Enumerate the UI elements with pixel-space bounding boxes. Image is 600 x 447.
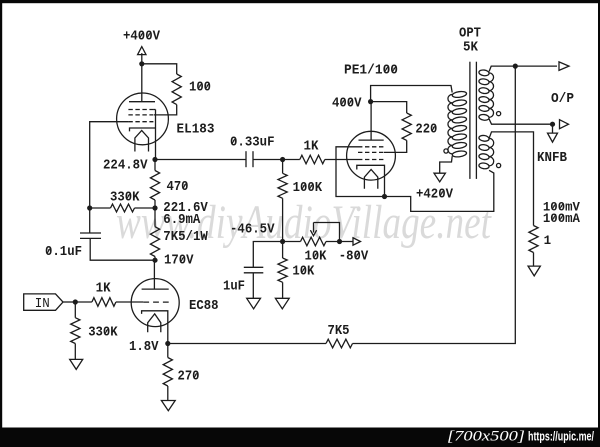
PE1 grid g2 bbox=[358, 151, 384, 153]
EL183 grid g1 bbox=[128, 121, 153, 123]
ground 10K bbox=[275, 298, 289, 309]
wire feedback right bbox=[353, 66, 516, 343]
EC88 cathode bbox=[142, 311, 168, 344]
svg-text:400V: 400V bbox=[332, 97, 362, 112]
label 100 bbox=[189, 81, 211, 96]
EL183 grid g2 (screen) bbox=[128, 114, 153, 116]
resistor 1K (PE1 grid stopper) bbox=[300, 155, 325, 164]
wire 100K to -46.5V node bbox=[282, 198, 284, 241]
wire R1 to ground bbox=[533, 253, 535, 267]
wire 220 to PE1 g2 bbox=[384, 140, 407, 152]
op EL183 envelope bbox=[117, 93, 169, 145]
label OPT bbox=[459, 27, 481, 42]
wire +400V to R 100 branch bbox=[142, 64, 177, 74]
wire node to 7K5/1W bbox=[154, 208, 156, 227]
label 1.8V bbox=[129, 340, 159, 355]
EC88 heater bbox=[148, 314, 161, 332]
svg-text:EC88: EC88 bbox=[189, 299, 219, 314]
label 10K pot bbox=[305, 250, 328, 265]
svg-text:220: 220 bbox=[415, 123, 437, 138]
svg-text:1: 1 bbox=[544, 233, 552, 248]
svg-text:1K: 1K bbox=[96, 282, 112, 297]
wire C 1uF to ground bbox=[252, 273, 254, 299]
label 400V bbox=[332, 97, 362, 112]
wire cathode to KNFB winding bbox=[385, 170, 494, 211]
label 330K upper bbox=[110, 191, 140, 206]
EL183 heater bbox=[135, 131, 149, 152]
wire pot to -80V bbox=[326, 241, 353, 243]
label 1 bbox=[544, 233, 552, 248]
svg-text:IN: IN bbox=[35, 297, 50, 312]
+400V label bbox=[123, 30, 161, 45]
label EC88 bbox=[189, 299, 219, 314]
svg-text:+400V: +400V bbox=[123, 30, 161, 45]
svg-text:-46.5V: -46.5V bbox=[230, 222, 275, 237]
wire plate to OPT primary bbox=[371, 86, 453, 102]
resistor 100 bbox=[172, 74, 181, 105]
svg-text:100K: 100K bbox=[293, 181, 323, 196]
node g1 bias junction bbox=[87, 205, 92, 210]
wire EL183 g1 left bbox=[90, 122, 129, 208]
PE1 g3 tie to cathode bbox=[336, 147, 385, 197]
arrow O/P bbox=[559, 62, 569, 71]
wire IN to node bbox=[63, 301, 75, 303]
wire 330K to ground bbox=[74, 344, 76, 360]
PE1 plate bbox=[359, 102, 384, 141]
svg-text:KNFB: KNFB bbox=[537, 151, 567, 166]
wire C 0.33uF to node bbox=[253, 159, 283, 161]
label -80V bbox=[339, 250, 369, 265]
wire KNFB ground lead bbox=[552, 124, 554, 133]
label 1uF bbox=[223, 280, 245, 295]
input flag IN bbox=[24, 294, 63, 310]
potentiometer 10K body bbox=[301, 237, 327, 246]
ground input 330K bbox=[70, 359, 83, 369]
EL183 grid g3 bbox=[128, 109, 155, 111]
OPT secondary OP winding bbox=[479, 69, 494, 120]
wire secondary top to O/P bbox=[489, 66, 557, 71]
wire node to C 1uF bbox=[253, 242, 282, 268]
svg-text:0.33uF: 0.33uF bbox=[230, 136, 275, 151]
OPT primary phase dot bbox=[444, 149, 448, 153]
EC88 grid bbox=[143, 301, 168, 303]
svg-text:PE1/100: PE1/100 bbox=[344, 64, 398, 79]
label PE1/100 bbox=[344, 64, 398, 79]
label 0.1uF bbox=[45, 245, 82, 260]
node O/P feedback tap bbox=[513, 64, 518, 69]
wire 10K to ground bbox=[282, 282, 284, 298]
wire plate branch to 220 bbox=[371, 102, 407, 113]
capacitor 1uF bbox=[244, 267, 263, 273]
watermark www.diyAudioVillage.net bbox=[116, 196, 492, 249]
label 0.33uF bbox=[230, 136, 275, 151]
wire cathode node down bbox=[154, 160, 156, 171]
pot wiper arrow bbox=[310, 223, 316, 236]
node input bbox=[73, 299, 78, 304]
svg-text:EL183: EL183 bbox=[177, 123, 215, 138]
EL183 cathode bbox=[130, 128, 156, 131]
node 224.8V bbox=[152, 157, 157, 162]
label KNFB bbox=[537, 151, 567, 166]
node 170V bbox=[152, 258, 157, 263]
wire feedback left bbox=[168, 343, 326, 345]
arrow KNFB bbox=[560, 120, 569, 129]
tube EC88 envelope bbox=[131, 279, 179, 327]
wire g1 node to C 0.1uF bbox=[89, 208, 91, 233]
label 6.9mA bbox=[163, 213, 201, 228]
node 221.6V bbox=[152, 205, 157, 210]
svg-text:100: 100 bbox=[189, 81, 211, 96]
capacitor 0.1uF bbox=[80, 233, 101, 238]
resistor 220 bbox=[402, 113, 411, 140]
node PE1 plate bbox=[368, 99, 373, 104]
svg-text:170V: 170V bbox=[164, 254, 194, 269]
wire node to 1K bbox=[75, 301, 92, 303]
arrow +420V bbox=[434, 173, 445, 182]
wire node to 1K bbox=[283, 159, 300, 161]
ground KNFB bbox=[548, 133, 558, 142]
label O/P bbox=[551, 92, 574, 107]
wire 470 to node bbox=[154, 200, 156, 208]
resistor 330K (EL183 grid) bbox=[111, 204, 135, 212]
PE1 cathode bbox=[357, 165, 385, 196]
+400V supply arrow bbox=[138, 47, 146, 64]
resistor 100K bbox=[278, 173, 287, 198]
label 220 bbox=[415, 123, 437, 138]
wire 270 to ground bbox=[167, 386, 169, 401]
label 270 bbox=[178, 370, 200, 385]
resistor 1 bbox=[529, 226, 538, 253]
label 7K5 bbox=[328, 324, 350, 339]
wire secondary bottom bbox=[489, 119, 552, 124]
svg-text:100mA: 100mA bbox=[543, 211, 580, 226]
svg-text:-80V: -80V bbox=[339, 250, 369, 265]
PE1 grid g1 bbox=[358, 159, 384, 161]
label 1K input bbox=[96, 282, 112, 297]
svg-text:+420V: +420V bbox=[416, 188, 454, 203]
label 330K input bbox=[88, 326, 118, 341]
svg-text:10K: 10K bbox=[305, 250, 328, 265]
OPT primary winding bbox=[448, 91, 467, 158]
ground 1uF bbox=[247, 298, 261, 309]
wire node to 100K bbox=[282, 160, 284, 174]
resistor 470 bbox=[150, 171, 159, 201]
wire primary bottom to +420V bbox=[440, 156, 453, 173]
svg-text:1K: 1K bbox=[304, 140, 320, 155]
label 10K lower bbox=[292, 265, 315, 280]
wire input node down bbox=[74, 302, 76, 318]
resistor 330K (input) bbox=[71, 318, 80, 344]
wire R100 to EL183 g2 bbox=[154, 105, 177, 115]
wire C 0.1uF to 170V node bbox=[90, 238, 155, 260]
svg-text:330K: 330K bbox=[110, 191, 140, 206]
bottom caption bar bbox=[0, 428, 600, 447]
svg-text:1.8V: 1.8V bbox=[129, 340, 159, 355]
svg-text:7K5: 7K5 bbox=[328, 324, 350, 339]
label 7K5/1W bbox=[163, 230, 208, 245]
node pot wiper junction bbox=[337, 239, 342, 244]
label 100mA bbox=[543, 211, 580, 226]
label 100K bbox=[293, 181, 323, 196]
arrow -80V bbox=[353, 238, 361, 246]
svg-text:0.1uF: 0.1uF bbox=[45, 245, 82, 260]
label IN bbox=[35, 297, 50, 312]
resistor 1K (EC88 grid) bbox=[92, 298, 116, 307]
svg-text:OPT: OPT bbox=[459, 27, 481, 42]
resistor 10K bbox=[278, 258, 287, 282]
svg-text:10K: 10K bbox=[292, 265, 315, 280]
svg-text:270: 270 bbox=[178, 370, 200, 385]
OPT cathode winding bbox=[479, 135, 494, 170]
label -46.5V bbox=[230, 222, 275, 237]
label 5K bbox=[463, 41, 479, 56]
OPT secondary OP phase dot bbox=[497, 112, 501, 116]
wire cathode to 270 bbox=[167, 344, 169, 358]
svg-text:224.8V: 224.8V bbox=[103, 159, 148, 174]
ground R1 bbox=[528, 266, 540, 276]
svg-text:O/P: O/P bbox=[551, 92, 574, 107]
EL183 plate bbox=[129, 64, 155, 102]
PE1 heater bbox=[364, 170, 377, 189]
OPT cathode winding phase dot bbox=[497, 163, 501, 167]
label EL183 bbox=[177, 123, 215, 138]
wire 1K to EC88 grid bbox=[116, 301, 143, 303]
label 224.8V bbox=[103, 159, 148, 174]
node -46.5V bbox=[280, 239, 285, 244]
svg-text:5K: 5K bbox=[463, 41, 479, 56]
wire 330K left lead bbox=[90, 207, 111, 209]
label 100mV bbox=[543, 200, 580, 215]
node cathode 1.8V bbox=[165, 341, 170, 346]
resistor 7K5/1W bbox=[150, 227, 159, 257]
wire 1K to PE1 g1 bbox=[325, 159, 358, 161]
svg-text:1uF: 1uF bbox=[223, 280, 245, 295]
wire cathode winding top to R1 bbox=[489, 132, 533, 226]
resistor 7K5 feedback bbox=[326, 339, 353, 348]
wire node to 10K bbox=[282, 242, 284, 259]
capacitor 0.33uF bbox=[246, 151, 253, 167]
wire 330K right lead bbox=[135, 207, 156, 209]
OPT core bbox=[470, 62, 477, 179]
svg-text:330K: 330K bbox=[88, 326, 118, 341]
label 221.6V bbox=[163, 201, 208, 216]
node +400V junction bbox=[139, 61, 144, 66]
svg-text:https://upic.me/: https://upic.me/ bbox=[528, 429, 594, 444]
svg-text:[700x500]: [700x500] bbox=[447, 429, 525, 445]
label 470 bbox=[167, 180, 189, 195]
wire 7K5/1W to 170V node bbox=[154, 257, 156, 261]
EL183 g3-cathode tie / cathode lead bbox=[155, 110, 157, 160]
ground 270 bbox=[161, 401, 175, 411]
wire node to pot bbox=[283, 241, 301, 243]
node PE1 cathode bbox=[382, 194, 387, 199]
label 1K upper bbox=[304, 140, 320, 155]
EC88 plate bbox=[142, 260, 169, 289]
label 170V bbox=[164, 254, 194, 269]
pot wiper tie bbox=[314, 223, 340, 242]
svg-text:6.9mA: 6.9mA bbox=[163, 213, 201, 228]
label +420V bbox=[416, 188, 454, 203]
svg-text:470: 470 bbox=[167, 180, 189, 195]
tube PE1/100 envelope bbox=[347, 131, 396, 180]
PE1 grid g3 bbox=[358, 146, 384, 148]
wire 224.8V to C 0.33uF bbox=[155, 159, 246, 161]
svg-text:7K5/1W: 7K5/1W bbox=[163, 230, 208, 245]
node KNFB bbox=[550, 122, 555, 127]
resistor 270 bbox=[163, 358, 172, 387]
node PE1 grid divider bbox=[280, 157, 285, 162]
